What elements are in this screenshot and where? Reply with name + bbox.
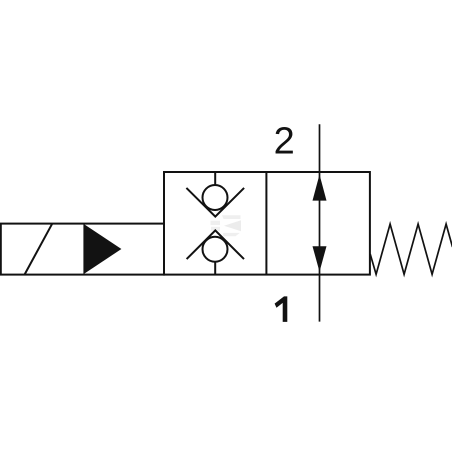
svg-text:2: 2 (274, 121, 295, 163)
solenoid coil box (1, 224, 164, 275)
wire: top flow stub (214, 172, 216, 185)
check valve seat (top V) (186, 188, 244, 217)
return spring (370, 224, 452, 274)
check valve ball (bottom circle) (203, 237, 228, 262)
wire: bottom flow stub (214, 262, 216, 274)
valve position divider (265, 172, 267, 275)
valve body box (164, 172, 370, 275)
check valve ball (top circle) (203, 185, 228, 210)
port label 1 (275, 296, 288, 322)
wire: port flow line 2-1 (319, 124, 321, 321)
flow arrow head up (313, 175, 327, 201)
solenoid slash (25, 224, 53, 275)
flow arrow head down (313, 246, 327, 272)
solenoid actuation triangle (83, 224, 121, 275)
check valve seat (bottom inverted V) (187, 230, 244, 259)
